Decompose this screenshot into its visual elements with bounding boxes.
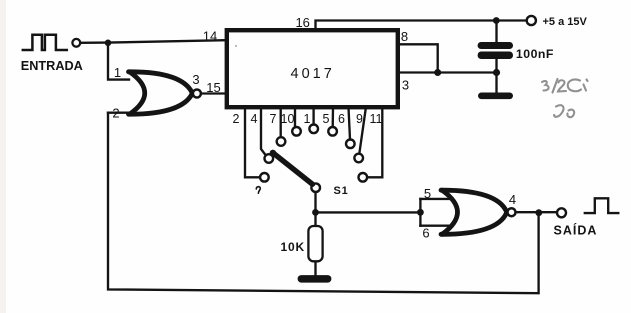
svg-text:+5 a 15V: +5 a 15V [543, 16, 588, 28]
svg-text:SAÍDA: SAÍDA [554, 223, 598, 238]
svg-text:8: 8 [401, 29, 408, 44]
svg-text:6: 6 [338, 112, 345, 126]
svg-text:4017: 4017 [291, 66, 335, 82]
svg-text:100nF: 100nF [516, 47, 554, 61]
svg-text:3: 3 [192, 72, 199, 87]
svg-text:10: 10 [281, 112, 295, 126]
svg-text:5: 5 [323, 112, 330, 126]
svg-text:4: 4 [509, 192, 516, 207]
svg-text:5: 5 [424, 186, 431, 201]
svg-text:11: 11 [370, 112, 383, 126]
svg-text:4: 4 [251, 112, 258, 126]
svg-text:15: 15 [206, 80, 220, 95]
svg-text:10K: 10K [281, 240, 305, 254]
svg-text:9: 9 [356, 112, 363, 126]
svg-text:16: 16 [295, 15, 309, 30]
svg-text:1: 1 [304, 112, 311, 126]
svg-text:6: 6 [422, 226, 429, 241]
svg-text:S1: S1 [334, 185, 349, 197]
svg-text:14: 14 [203, 29, 217, 44]
svg-text:7: 7 [270, 112, 277, 126]
svg-text:ENTRADA: ENTRADA [21, 59, 83, 73]
svg-text:2: 2 [112, 106, 119, 121]
svg-text:2: 2 [233, 112, 240, 126]
svg-text:3: 3 [402, 78, 409, 93]
svg-text:1: 1 [114, 65, 121, 80]
